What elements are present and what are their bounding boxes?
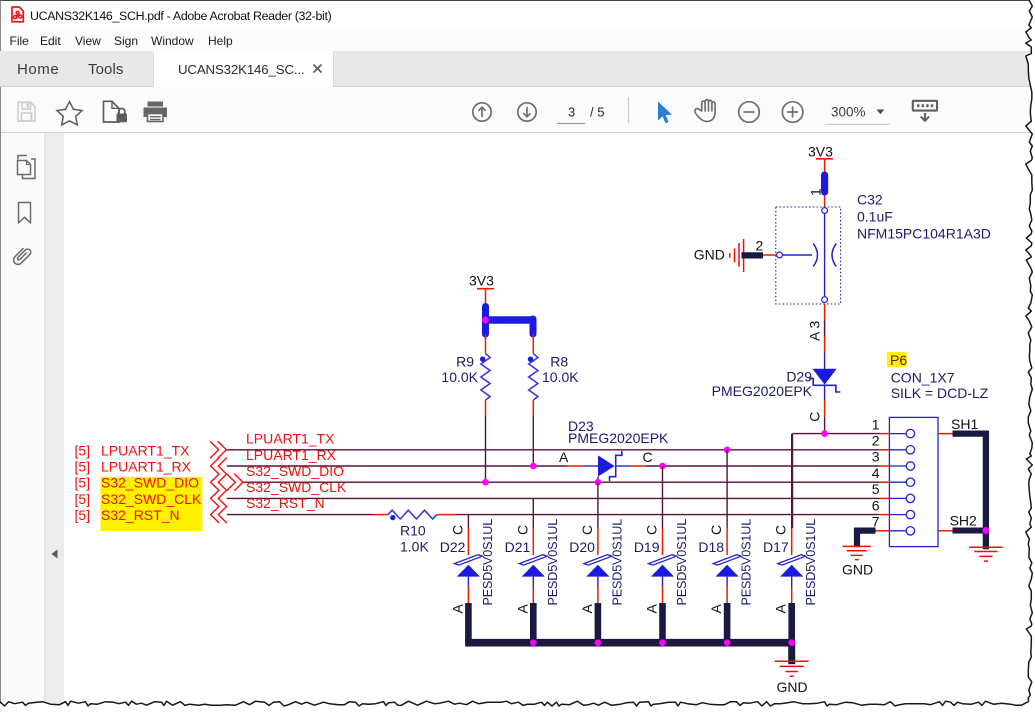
wire bar to R9 xyxy=(485,334,487,354)
toolbar: save icon (disabled) xyxy=(18,102,35,121)
junction D23/S32_SWD_DIO xyxy=(595,479,602,486)
svg-text:C: C xyxy=(807,412,823,422)
wire LPUART1_RX from D23 cathode xyxy=(616,465,630,467)
wire 3V3 to bus bar xyxy=(485,290,487,304)
tvs diode D17 PESD5V0S1UL xyxy=(763,519,818,614)
junction D29/P6 pin1 xyxy=(821,430,828,437)
svg-text:A 3: A 3 xyxy=(807,321,823,341)
tvs diode D18 PESD5V0S1UL xyxy=(698,519,753,614)
sidebar: collapse arrow xyxy=(52,550,58,559)
svg-text:6: 6 xyxy=(872,497,880,513)
svg-text:PESD5V0S1UL: PESD5V0S1UL xyxy=(675,519,689,606)
svg-text:R10: R10 xyxy=(400,523,426,539)
ground GND at C32 pin2 xyxy=(694,239,763,272)
svg-text:[5]: [5] xyxy=(75,475,91,491)
svg-text:[5]: [5] xyxy=(75,458,91,474)
svg-text:LPUART1_TX: LPUART1_TX xyxy=(101,442,190,458)
svg-text:1: 1 xyxy=(808,188,824,196)
svg-text:0.1uF: 0.1uF xyxy=(857,208,893,224)
wire D20 anode xyxy=(597,577,599,587)
wire S32_RST_N net (left of R10) xyxy=(227,514,373,516)
yellow highlight on S32 signals xyxy=(101,477,203,531)
tvs diode D19 PESD5V0S1UL xyxy=(634,519,689,614)
svg-text:NFM15PC104R1A3D: NFM15PC104R1A3D xyxy=(857,225,991,241)
svg-text:GND: GND xyxy=(842,562,873,578)
toolbar: zoom out xyxy=(739,102,760,123)
wire D22 anode xyxy=(467,577,469,587)
svg-text:LPUART1_TX: LPUART1_TX xyxy=(246,431,335,447)
wire D18 anode xyxy=(726,577,728,587)
wire thick SH1 ground bar xyxy=(953,434,986,550)
wire bar to R8 xyxy=(532,334,534,354)
svg-text:GND: GND xyxy=(777,679,808,695)
svg-text:D21: D21 xyxy=(505,539,531,555)
wire thick SH2 ground bar xyxy=(953,528,986,534)
wire LPUART1_TX net xyxy=(226,449,879,451)
junction D20/ground bus xyxy=(595,639,602,646)
node sheet connector S32_SWD_DIO (bidir) xyxy=(211,474,227,491)
svg-text:A: A xyxy=(579,604,595,614)
svg-text:P6: P6 xyxy=(890,352,907,368)
svg-text:C: C xyxy=(708,525,724,535)
svg-text:3: 3 xyxy=(872,449,880,465)
svg-text:A: A xyxy=(514,604,530,614)
svg-text:A: A xyxy=(559,449,569,465)
svg-text:A: A xyxy=(644,604,660,614)
svg-text:2: 2 xyxy=(872,433,880,449)
svg-text:7: 7 xyxy=(872,514,880,530)
svg-text:SH1: SH1 xyxy=(951,416,978,432)
toolbar: select cursor (blue) xyxy=(658,102,672,124)
svg-text:[5]: [5] xyxy=(75,442,91,458)
connector P6 CON_1X7 xyxy=(887,352,989,547)
node sheet connector S32_RST_N (in) xyxy=(211,506,227,523)
sidebar: attachments icon xyxy=(12,246,32,266)
junction D21/ground bus xyxy=(530,639,537,646)
wire thick D17 ground drop xyxy=(788,603,795,643)
junction R9/S32_SWD_DIO xyxy=(482,479,489,486)
wire thick bar at C32 pin1 xyxy=(821,175,828,192)
diode D23 PMEG2020EPK xyxy=(559,418,669,481)
wire 3V3 to C32 pin1 xyxy=(824,160,826,172)
wire thick D22 ground drop xyxy=(465,603,472,643)
left sidebar xyxy=(1,133,45,712)
capacitor C32 0.1uF NFM15PC104R1A3D xyxy=(776,191,991,304)
svg-text:1.0K: 1.0K xyxy=(400,539,429,555)
wire P6 SH2 stub xyxy=(938,530,953,532)
wire D29 cathode to P6 pin1 net xyxy=(824,386,826,400)
wire S32_RST_N net (right of R10) xyxy=(437,514,456,516)
junction on 3V3 bar xyxy=(482,317,489,324)
svg-text:PESD5V0S1UL: PESD5V0S1UL xyxy=(481,519,495,606)
toolbar xyxy=(1,87,1031,133)
svg-text:3V3: 3V3 xyxy=(469,272,494,288)
svg-text:C: C xyxy=(514,525,530,535)
svg-text:S32_RST_N: S32_RST_N xyxy=(246,495,325,511)
svg-text:[5]: [5] xyxy=(75,507,91,523)
wire P6 pin7 stub xyxy=(876,530,890,532)
toolbar: zoom in xyxy=(782,102,803,123)
svg-text:C: C xyxy=(449,525,465,535)
wire D18 branch xyxy=(726,450,728,528)
menu bar xyxy=(1,30,1031,51)
node sheet connector S32_SWD_CLK (in) xyxy=(211,490,227,507)
svg-text:5: 5 xyxy=(872,481,880,497)
svg-text:LPUART1_RX: LPUART1_RX xyxy=(101,458,192,474)
wire S32_SWD_CLK net xyxy=(227,497,880,499)
svg-text:GND: GND xyxy=(694,247,725,263)
svg-text:S32_SWD_DIO: S32_SWD_DIO xyxy=(246,463,344,479)
svg-text:SH2: SH2 xyxy=(950,513,977,529)
svg-text:C32: C32 xyxy=(857,191,883,207)
wire D22 branch xyxy=(467,515,469,528)
svg-text:R9: R9 xyxy=(456,353,474,369)
toolbar: print icon xyxy=(144,102,168,122)
wire stub to P6 pin 2 xyxy=(880,449,890,451)
wire D21 branch xyxy=(532,498,534,528)
wire stub to P6 pin 4 xyxy=(880,481,890,483)
junction D19/ground bus xyxy=(659,639,666,646)
wire D19 anode xyxy=(662,577,664,587)
toolbar: hand tool xyxy=(695,100,715,122)
svg-text:S32_SWD_CLK: S32_SWD_CLK xyxy=(101,491,202,507)
svg-text:R8: R8 xyxy=(550,353,568,369)
wire thick 3V3 feed bar xyxy=(482,307,489,335)
wire D23 anode to S32_SWD_DIO xyxy=(597,477,599,483)
ground GND (pin7) xyxy=(842,546,873,577)
wire D17 anode xyxy=(791,577,793,587)
svg-text:3: 3 xyxy=(568,105,575,120)
wire thick bus to GND xyxy=(788,643,795,665)
tvs diode D22 PESD5V0S1UL xyxy=(440,519,495,614)
svg-text:D20: D20 xyxy=(569,539,595,555)
svg-text:LPUART1_RX: LPUART1_RX xyxy=(246,447,337,463)
svg-text:D18: D18 xyxy=(698,539,724,555)
svg-text:[5]: [5] xyxy=(75,491,91,507)
svg-text:2: 2 xyxy=(756,237,764,253)
junction D19 branch on LPUART1_RX xyxy=(659,463,666,470)
toolbar: page display icon xyxy=(913,101,937,121)
svg-text:10.0K: 10.0K xyxy=(441,369,478,385)
svg-text:A: A xyxy=(449,604,465,614)
svg-text:PMEG2020EPK: PMEG2020EPK xyxy=(568,430,669,446)
svg-text:A: A xyxy=(773,604,789,614)
svg-text:S32_SWD_CLK: S32_SWD_CLK xyxy=(246,479,347,495)
wire D20 branch xyxy=(597,482,599,528)
svg-text:SILK = DCD-LZ: SILK = DCD-LZ xyxy=(891,385,989,401)
toolbar: next page circle-arrow xyxy=(518,103,536,121)
svg-text:PESD5V0S1UL: PESD5V0S1UL xyxy=(804,519,818,606)
svg-text:D19: D19 xyxy=(634,539,660,555)
wire R8 to LPUART1_RX xyxy=(532,400,534,416)
wire D21 anode xyxy=(532,577,534,587)
svg-text:CON_1X7: CON_1X7 xyxy=(891,369,955,385)
svg-text:1: 1 xyxy=(872,416,880,432)
toolbar: page-lock icon xyxy=(104,101,128,122)
wire thick pin7 ground bar xyxy=(857,531,876,548)
svg-text:/ 5: / 5 xyxy=(590,105,604,120)
wire bar to C32 xyxy=(824,196,826,208)
wire thick D18 ground drop xyxy=(724,603,731,643)
svg-text:PESD5V0S1UL: PESD5V0S1UL xyxy=(610,519,624,606)
toolbar: prev page circle-arrow xyxy=(473,103,491,121)
wire thick D20 ground drop xyxy=(595,603,602,643)
diode D29 PMEG2020EPK xyxy=(712,369,841,399)
resistor R8 10.0K xyxy=(528,353,579,400)
tvs diode D20 PESD5V0S1UL xyxy=(569,519,624,614)
junction R8/LPUART1_RX xyxy=(530,463,537,470)
wire P6 pin1 net xyxy=(793,434,880,528)
svg-text:10.0K: 10.0K xyxy=(542,369,579,385)
node sheet refs [5] xyxy=(75,442,91,523)
sidebar: bookmarks icon xyxy=(19,203,31,224)
junction SH2/ground bar xyxy=(982,527,989,534)
wire stub to P6 pin 1 xyxy=(880,433,890,435)
wire stub to P6 pin 3 xyxy=(880,465,890,467)
node sheet connector LPUART1_RX (in) xyxy=(211,458,227,475)
wire C32 pin3 down to D29 xyxy=(824,304,826,321)
node sheet connector LPUART1_TX (out) xyxy=(210,441,226,458)
wire thick D19 ground drop xyxy=(659,603,666,643)
svg-text:PESD5V0S1UL: PESD5V0S1UL xyxy=(546,519,560,606)
svg-text:C: C xyxy=(643,449,653,465)
svg-text:C: C xyxy=(579,525,595,535)
svg-text:PESD5V0S1UL: PESD5V0S1UL xyxy=(740,519,754,606)
wire P6 SH1 stub xyxy=(938,433,953,435)
svg-text:300%: 300% xyxy=(831,105,866,120)
svg-text:3V3: 3V3 xyxy=(808,143,833,159)
toolbar: star icon xyxy=(57,102,82,125)
ground (SH bar) xyxy=(969,547,1003,561)
tab bar xyxy=(0,51,1031,87)
wire stub to P6 pin 6 xyxy=(880,514,890,516)
junction D18 branch on LPUART1_TX xyxy=(724,447,731,454)
junction D18/ground bus xyxy=(724,639,731,646)
svg-text:S32_SWD_DIO: S32_SWD_DIO xyxy=(101,475,199,491)
junction D17/ground bus xyxy=(788,639,795,646)
tvs diode D21 PESD5V0S1UL xyxy=(505,519,560,614)
svg-text:D22: D22 xyxy=(440,539,466,555)
svg-text:D17: D17 xyxy=(763,539,789,555)
svg-text:S32_RST_N: S32_RST_N xyxy=(101,507,180,523)
svg-text:4: 4 xyxy=(872,465,880,481)
wire D17 branch xyxy=(791,434,793,528)
svg-text:A: A xyxy=(708,604,724,614)
toolbar: separator xyxy=(628,97,630,123)
svg-text:PMEG2020EPK: PMEG2020EPK xyxy=(712,383,813,399)
ground GND (bus) xyxy=(775,661,809,695)
svg-text:C: C xyxy=(773,525,789,535)
title bar xyxy=(1,1,1031,30)
wire D19 branch xyxy=(662,466,664,528)
wire thick ground bus xyxy=(465,639,794,647)
wire LPUART1_RX stub into D23 anode xyxy=(567,465,584,467)
svg-text:C: C xyxy=(644,525,660,535)
wire S32_SWD_DIO net xyxy=(243,481,880,483)
wire LPUART1_RX net (left of D23) xyxy=(227,465,567,467)
sidebar: page thumbnails icon xyxy=(18,156,36,179)
wire stub to P6 pin 5 xyxy=(880,497,890,499)
wire thick D21 ground drop xyxy=(530,603,537,643)
wire GND bar to C32 pin2 xyxy=(763,254,777,256)
resistor R10 1.0K xyxy=(388,510,437,554)
wire R9 to S32_SWD_DIO xyxy=(485,400,487,416)
resistor R9 10.0K xyxy=(441,353,490,400)
